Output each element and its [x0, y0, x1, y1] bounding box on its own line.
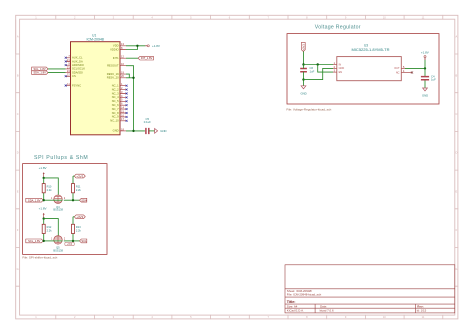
junction R12 bottom: [43, 240, 45, 242]
U1 right no-connect X marks: [126, 85, 128, 122]
capacitor C5: [144, 117, 151, 134]
global label SDA_1.8V: [26, 198, 43, 202]
svg-text:2: 2: [64, 198, 66, 200]
wire SCL_1.8V to U1: [48, 68, 66, 70]
svg-text:C: C: [455, 112, 457, 116]
svg-text:SCL_1.8V: SCL_1.8V: [33, 67, 45, 71]
junction R13 bottom: [72, 240, 74, 242]
svg-text:0.1uF: 0.1uF: [144, 120, 151, 124]
global label SDA: [80, 198, 87, 202]
junction R10 bottom: [43, 199, 45, 201]
capacitor C6: [300, 65, 314, 80]
svg-text:File: Voltage-Regulator-kicad_: File: Voltage-Regulator-kicad_sch: [286, 107, 331, 111]
svg-text:AUX_DA: AUX_DA: [72, 59, 83, 63]
svg-text:File: SPI-shifter-kicad_sch: File: SPI-shifter-kicad_sch: [22, 256, 57, 260]
resistor R12: [42, 219, 52, 241]
svg-text:SDA_1.8V: SDA_1.8V: [33, 71, 46, 75]
svg-text:R12: R12: [47, 225, 52, 229]
svg-text:CS: CS: [72, 74, 76, 78]
junction OUT node: [424, 67, 426, 69]
svg-text:File: ICM-20948-kicad_sch: File: ICM-20948-kicad_sch: [287, 293, 322, 297]
svg-text:AUX_CL: AUX_CL: [72, 56, 83, 60]
wire Q4 drain to SDA label: [64, 199, 80, 201]
svg-text:NC_9: NC_9: [112, 115, 119, 119]
svg-text:3: 3: [113, 15, 115, 19]
junction VDD/VDDIO: [136, 45, 138, 47]
IC U1 ICM-20948 body: [71, 34, 121, 135]
svg-text:C: C: [17, 112, 19, 116]
svg-text:4: 4: [151, 15, 153, 19]
svg-text:OUT: OUT: [394, 67, 400, 70]
svg-text:F: F: [456, 228, 458, 232]
wire C5 to GND symbol: [149, 130, 155, 132]
wire VIN to U3 IN: [304, 64, 334, 66]
svg-text:+3V3: +3V3: [301, 44, 305, 51]
svg-text:+3V3: +3V3: [76, 174, 83, 178]
svg-text:2: 2: [64, 239, 66, 241]
ground at C5: [155, 129, 167, 134]
svg-text:R13: R13: [76, 225, 81, 229]
title block: [285, 265, 455, 313]
wire U3 OUT to +1.8V node: [405, 67, 425, 69]
wire +3V3 label to C6 node: [303, 52, 305, 65]
svg-text:1: 1: [51, 198, 53, 200]
net label +3V3 at Q5 drain: [65, 242, 75, 246]
svg-text:D: D: [17, 151, 19, 155]
ground at C6: [300, 86, 306, 96]
svg-text:E: E: [456, 189, 458, 193]
svg-text:SCL_1.8V: SCL_1.8V: [28, 239, 40, 243]
svg-text:5: 5: [190, 15, 192, 19]
svg-text:RESV_20: RESV_20: [107, 76, 119, 80]
global label +3V3 (vertical, into regulator): [301, 42, 305, 51]
transistor Q4 BSS138: [51, 195, 66, 212]
svg-text:MIC5225-1.8YM5-TR: MIC5225-1.8YM5-TR: [351, 47, 389, 52]
wire RESV_20: [126, 77, 134, 79]
ground at C4: [422, 88, 428, 98]
svg-text:NC_1: NC_1: [112, 84, 119, 88]
svg-text:2.2k: 2.2k: [47, 188, 53, 192]
global label SCL: [80, 239, 88, 243]
svg-text:2.2k: 2.2k: [76, 188, 82, 192]
sheet Voltage Regulator: [286, 24, 439, 111]
wire INT1: [126, 57, 138, 59]
wire VDD to +1.8V: [126, 45, 145, 47]
transistor Q5 BSS138: [51, 236, 66, 253]
regulator U3 MIC5225: [337, 43, 402, 80]
junction R11 bottom: [72, 199, 74, 201]
svg-text:GND: GND: [339, 67, 345, 70]
wire U3 GND pin to ground: [304, 68, 334, 79]
svg-text:E: E: [17, 189, 19, 193]
junction C6 bottom / U3 GND: [302, 78, 304, 80]
svg-text:GND: GND: [160, 129, 166, 133]
U1 right pin names: [107, 44, 119, 133]
svg-text:NC_4: NC_4: [112, 95, 119, 99]
svg-text:NC_2: NC_2: [112, 87, 119, 91]
svg-text:BSS138: BSS138: [53, 248, 63, 252]
svg-text:RESV_19: RESV_19: [107, 72, 119, 76]
resistor R11: [72, 176, 82, 200]
svg-text:+1.8V: +1.8V: [152, 44, 160, 48]
svg-text:IN: IN: [339, 63, 342, 66]
U1 left pin stubs: [66, 58, 71, 86]
junction IN/EN branch: [317, 63, 319, 65]
svg-text:SPI Pullups & ShM: SPI Pullups & ShM: [34, 155, 88, 161]
svg-text:EN: EN: [339, 71, 343, 74]
svg-text:2.2k: 2.2k: [47, 229, 53, 233]
svg-text:A: A: [17, 35, 19, 39]
wire REGOUT down: [126, 66, 134, 131]
wire SCL_1.8V to Q5 source: [43, 240, 54, 242]
svg-text:kicad 7.0.6: kicad 7.0.6: [320, 309, 334, 313]
wire gate branch Q4: [44, 178, 59, 195]
svg-text:F: F: [17, 228, 19, 232]
wire Q5 drain to SCL label: [64, 240, 80, 242]
svg-text:D: D: [455, 151, 457, 155]
junction +1.8V / R12 / gate: [43, 217, 45, 219]
power +1.8V at U1: [145, 44, 160, 48]
svg-text:1: 1: [35, 15, 37, 19]
wire gate branch Q5: [44, 219, 59, 236]
svg-text:B: B: [456, 73, 458, 77]
junction VIN node: [302, 63, 304, 65]
svg-text:+3V3: +3V3: [76, 215, 83, 219]
svg-text:2: 2: [74, 15, 76, 19]
svg-text:NC_5: NC_5: [112, 99, 119, 103]
svg-text:NC_7: NC_7: [112, 107, 119, 111]
U3 pin numbers: [334, 62, 405, 73]
svg-text:+3V3: +3V3: [67, 244, 73, 246]
svg-text:AD0/SDO: AD0/SDO: [72, 63, 84, 67]
svg-text:SDA/SDI: SDA/SDI: [72, 70, 83, 74]
wire C6 to ground: [303, 80, 305, 86]
svg-text:VDD: VDD: [113, 44, 119, 48]
U3 pin stubs: [333, 65, 412, 73]
U1 right pin stubs: [120, 46, 126, 131]
svg-text:REGOUT: REGOUT: [107, 64, 119, 68]
svg-text:+1.8V: +1.8V: [39, 207, 47, 211]
svg-text:VDDIO: VDDIO: [110, 47, 119, 51]
global label INT_1.8V: [138, 56, 153, 60]
svg-text:SCL/SCLK: SCL/SCLK: [72, 67, 85, 71]
svg-text:GND: GND: [422, 94, 428, 98]
svg-text:A: A: [456, 35, 458, 39]
svg-text:Voltage Regulator: Voltage Regulator: [315, 24, 361, 30]
svg-text:+1.8V: +1.8V: [421, 50, 429, 54]
svg-text:NC_8: NC_8: [112, 111, 119, 115]
capacitor C4: [421, 68, 436, 88]
wire EN branch: [318, 65, 333, 73]
svg-text:NC: NC: [396, 71, 400, 74]
resistor R10: [42, 178, 52, 200]
svg-text:1uF: 1uF: [431, 78, 436, 82]
svg-text:10: 10: [383, 15, 386, 19]
svg-text:Id: 1/15: Id: 1/15: [417, 309, 427, 313]
svg-text:1: 1: [51, 239, 53, 241]
svg-text:SDA_1.8V: SDA_1.8V: [28, 198, 41, 202]
power +1.8V (SCL shifter): [39, 207, 47, 219]
svg-text:7: 7: [267, 15, 269, 19]
svg-text:8: 8: [306, 15, 308, 19]
svg-text:1uF: 1uF: [310, 69, 315, 73]
global label +3V3 (SDA pullup): [73, 174, 85, 178]
sheet SPI Pullups & ShM: [22, 155, 107, 260]
global label SCL_1.8V: [26, 239, 43, 243]
svg-text:SCL: SCL: [81, 239, 87, 243]
svg-text:B: B: [17, 73, 19, 77]
junction GND net: [132, 130, 134, 132]
svg-text:R11: R11: [76, 184, 81, 188]
power +1.8V at regulator output: [421, 50, 429, 68]
svg-text:NC_10: NC_10: [110, 119, 119, 123]
global label SCL_1.8V: [32, 67, 48, 71]
global label +3V3 (SCL pullup): [73, 215, 85, 219]
wire SDA_1.8V to U1: [48, 72, 66, 74]
svg-text:NC_6: NC_6: [112, 103, 119, 107]
svg-text:GND: GND: [113, 129, 119, 133]
power +1.8V (SDA shifter): [39, 166, 47, 178]
junction RESV net: [132, 77, 134, 79]
U3 pin names: [339, 63, 400, 74]
svg-text:SDA: SDA: [81, 198, 87, 202]
svg-text:ICM-20948: ICM-20948: [87, 37, 104, 41]
wire VDDIO to VDD net: [126, 46, 137, 50]
svg-text:G: G: [455, 267, 457, 271]
svg-text:NC_3: NC_3: [112, 91, 119, 95]
svg-text:BSS138: BSS138: [53, 208, 63, 212]
wire RESV_19: [126, 74, 129, 78]
svg-text:9: 9: [345, 15, 347, 19]
no-connect on U3 NC pin: [411, 71, 413, 73]
wire SDA_1.8V to Q4 source: [43, 199, 54, 201]
junction +1.8V / R10 / gate: [43, 177, 45, 179]
svg-text:+1.8V: +1.8V: [39, 166, 47, 170]
svg-text:2.2k: 2.2k: [76, 229, 82, 233]
svg-text:G: G: [17, 267, 19, 271]
U1 right pin numbers: [121, 42, 124, 131]
svg-text:KiCad E.D.A.: KiCad E.D.A.: [287, 309, 304, 313]
svg-text:INT_1.8V: INT_1.8V: [141, 56, 153, 60]
global label SDA_1.8V: [32, 71, 48, 75]
resistor R13: [72, 217, 82, 241]
U1 left no-connect X marks: [65, 57, 67, 87]
svg-text:GND: GND: [300, 91, 306, 95]
svg-text:INT1: INT1: [113, 56, 119, 60]
svg-text:R10: R10: [47, 184, 52, 188]
wire GND pin to C5: [126, 130, 145, 132]
svg-text:11: 11: [422, 15, 425, 19]
svg-text:FSYNC: FSYNC: [72, 83, 81, 87]
U1 left pin names: [72, 56, 85, 88]
U1 left pin numbers: [67, 54, 70, 86]
svg-text:6: 6: [229, 15, 231, 19]
